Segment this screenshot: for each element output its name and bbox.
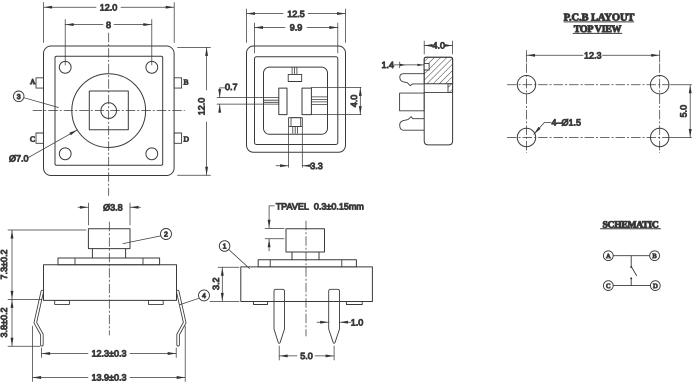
dimension 12.0 horizontal (view1) — [44, 3, 175, 43]
svg-text:C: C — [30, 135, 35, 144]
view4 right clip — [178, 292, 185, 345]
callout 4 — [199, 290, 210, 301]
view3 body — [424, 57, 452, 145]
view2 top tab lines — [292, 67, 297, 74]
dimension 12.3+-0.3 (view4) — [42, 348, 177, 358]
view3 top hook terminal — [400, 74, 424, 86]
view3 right hatch box — [448, 84, 453, 93]
svg-text:8: 8 — [106, 20, 111, 30]
dimension 4.0 (view3 top) — [424, 41, 452, 54]
view2 right contact — [302, 88, 311, 115]
view1 mounting hole top-left — [59, 61, 71, 73]
view5 center line — [305, 221, 307, 336]
svg-text:2: 2 — [164, 232, 168, 239]
svg-text:D: D — [653, 283, 658, 290]
view1 outer case — [44, 46, 175, 176]
view5 right pin — [329, 289, 340, 343]
schematic pin C — [603, 281, 613, 291]
svg-text:Ø3.8: Ø3.8 — [103, 203, 123, 213]
view1 inner frame — [55, 56, 163, 165]
dimension 12.5 (view2) — [247, 9, 346, 43]
view2 bottom tab hatch lines — [293, 126, 298, 133]
PCB center line vertical left — [526, 64, 528, 153]
schematic wire A-B — [613, 255, 649, 257]
view1 mounting hole top-right — [146, 61, 158, 73]
view1 terminal D — [174, 133, 182, 143]
dimension 5.0 (view5 bottom) — [279, 346, 334, 360]
callout 2 — [161, 229, 172, 240]
view1 center line vertical — [108, 33, 110, 196]
view3 terminal notch — [424, 64, 429, 70]
svg-text:13.9±0.3: 13.9±0.3 — [92, 373, 127, 383]
svg-text:A: A — [30, 77, 36, 86]
PCB hole bottom-right — [651, 128, 669, 146]
view4 left clip — [35, 292, 42, 345]
svg-text:12.3: 12.3 — [584, 51, 602, 61]
dimension 7.3+-0.2 (view4 left) — [8, 230, 86, 299]
view3 hatched top block — [424, 57, 452, 83]
view2 outer case — [247, 46, 346, 152]
view1 mounting hole bottom-left — [59, 148, 71, 160]
view1 mounting hole bottom-right — [146, 148, 158, 160]
dimension 9.9 (view2) — [255, 23, 338, 53]
view3 middle tab terminal — [400, 93, 425, 111]
PCB hole top-right — [651, 76, 669, 94]
view1 terminal B — [174, 78, 182, 88]
svg-text:1.4: 1.4 — [382, 60, 395, 70]
PCB center line vertical right — [659, 64, 661, 153]
dimension 3.8+-0.2 (view4 left lower) — [8, 299, 40, 346]
svg-text:12.3±0.3: 12.3±0.3 — [92, 349, 127, 359]
schematic wire C-D — [613, 285, 650, 287]
dimension 3.2 (view5 left) — [210, 267, 239, 301]
svg-text:0.7: 0.7 — [225, 82, 238, 92]
view4 stem — [92, 249, 125, 258]
view5 body — [241, 267, 373, 302]
schematic pin A — [603, 251, 613, 261]
view2 top tab box — [288, 74, 302, 81]
view5 foot right — [346, 302, 362, 305]
callout 3 circle — [13, 91, 24, 102]
svg-text:C: C — [606, 283, 610, 290]
view1 terminal C — [36, 133, 44, 143]
svg-text:9.9: 9.9 — [290, 23, 303, 33]
svg-text:1: 1 — [223, 244, 227, 251]
svg-text:4.0: 4.0 — [433, 41, 446, 51]
callout 3 leader — [24, 98, 59, 108]
view1 terminal A — [36, 78, 44, 88]
schematic switch — [630, 256, 636, 286]
PCB hole bottom-left — [517, 128, 535, 146]
svg-text:1.0: 1.0 — [351, 317, 364, 327]
dimension 8 (view1) — [65, 20, 152, 66]
svg-text:5.0: 5.0 — [679, 105, 689, 118]
view1 center square plunger — [89, 91, 128, 130]
svg-text:3.2: 3.2 — [211, 278, 221, 291]
view2 bottom tab extension lines — [289, 126, 303, 167]
view2 left contact — [279, 88, 287, 115]
view4 foot right — [149, 300, 164, 304]
svg-text:12.0: 12.0 — [197, 98, 207, 116]
svg-text:12.5: 12.5 — [287, 9, 305, 19]
svg-text:5.0: 5.0 — [300, 351, 313, 361]
view2 right lead lines — [311, 87, 361, 114]
svg-text:4–Ø1.5: 4–Ø1.5 — [552, 118, 582, 128]
PCB hole top-left — [517, 76, 535, 94]
view5 stem — [292, 252, 319, 260]
svg-text:D: D — [184, 135, 190, 144]
view5 left pin — [274, 289, 285, 343]
svg-text:A: A — [606, 253, 611, 260]
dimension 5.0 (PCB right) — [671, 85, 692, 138]
view2 left lead lines — [217, 98, 279, 105]
svg-text:3.8±0.2: 3.8±0.2 — [0, 308, 9, 338]
view5 foot left — [254, 302, 268, 305]
svg-text:12.0: 12.0 — [100, 2, 118, 12]
dimension 13.9+-0.3 (view4) — [33, 326, 186, 382]
dimension 12.0 vertical right (view1) — [178, 47, 211, 175]
view4 center line — [108, 222, 110, 335]
view1 center line horizontal — [33, 110, 185, 112]
svg-text:B: B — [652, 253, 657, 260]
view2 inner frame — [255, 57, 338, 145]
PCB center line horizontal top — [507, 84, 669, 86]
svg-text:3.3: 3.3 — [310, 161, 323, 171]
svg-text:TPAVEL 0.3±0.15mm: TPAVEL 0.3±0.15mm — [276, 202, 364, 212]
dimension 12.3 (PCB) — [527, 51, 660, 63]
svg-text:Ø7.0: Ø7.0 — [9, 154, 29, 164]
view4 knob — [88, 229, 130, 249]
dimension 4.0 (view2 right) — [359, 87, 361, 114]
view5 knob — [286, 229, 325, 252]
dimension 3.3 (view2 bottom) — [276, 165, 308, 167]
view3 internal lines — [424, 91, 452, 93]
view1 center hole — [101, 103, 117, 119]
svg-text:3: 3 — [17, 94, 21, 101]
PCB center line horizontal bottom — [507, 137, 670, 139]
svg-text:4.0: 4.0 — [349, 95, 359, 108]
svg-text:4: 4 — [202, 293, 206, 300]
view3 bottom hook terminal — [400, 117, 425, 131]
schematic pin D — [650, 281, 660, 291]
dimension 1.0 (view5 pin) — [317, 321, 351, 323]
view4 top plate — [58, 258, 160, 265]
svg-text:7.3±0.2: 7.3±0.2 — [0, 250, 9, 280]
view4 body — [44, 265, 177, 301]
view2 inner recess — [264, 67, 328, 134]
view5 top plate — [258, 260, 356, 267]
dimension O3.8 (view4 top) — [78, 203, 141, 225]
schematic pin B — [650, 251, 660, 261]
view4 foot left — [55, 300, 70, 304]
callout 1 — [219, 241, 230, 252]
svg-text:B: B — [184, 77, 189, 86]
view1 round cover O7.0 — [72, 74, 146, 148]
view2 bottom tab box — [289, 118, 303, 127]
